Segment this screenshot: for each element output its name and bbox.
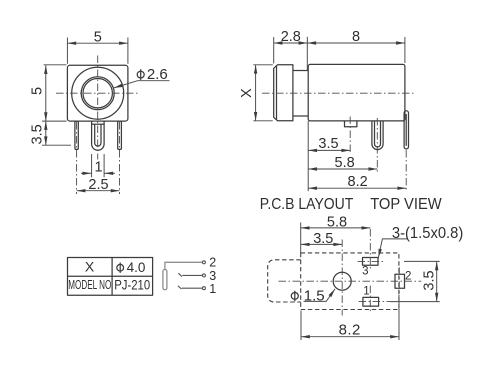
svg-text:TOP VIEW: TOP VIEW	[370, 196, 442, 213]
front view outer circle	[72, 67, 124, 119]
table row divider	[68, 275, 153, 277]
svg-text:MODEL NO: MODEL NO	[68, 278, 111, 292]
dimension 5 (top width) line	[67, 42, 128, 44]
svg-text:3.5: 3.5	[313, 231, 333, 247]
svg-text:4.0: 4.0	[127, 260, 146, 275]
svg-text:5.8: 5.8	[335, 155, 355, 171]
svg-text:5: 5	[29, 87, 45, 95]
pcb horizontal center line	[279, 280, 422, 282]
flat pin inner line	[405, 114, 407, 146]
schematic wire pin 2	[165, 262, 202, 269]
pad 1 horizontal center line	[359, 301, 390, 303]
dimension 5 (left height) line	[45, 65, 47, 121]
pad 1 vertical center line	[369, 286, 371, 313]
dimension 3.5 (side) line	[308, 149, 350, 151]
svg-text:P.C.B LAYOUT: P.C.B LAYOUT	[260, 196, 354, 213]
svg-text:2.8: 2.8	[281, 29, 301, 45]
svg-text:3.5: 3.5	[29, 124, 45, 144]
svg-text:8.2: 8.2	[348, 174, 368, 190]
svg-text:8: 8	[352, 29, 360, 45]
pad 3	[363, 258, 379, 266]
pad 2	[395, 274, 405, 288]
dimension 5.8 (side) line	[308, 168, 377, 170]
svg-text:3.5: 3.5	[318, 136, 338, 152]
svg-text:3: 3	[362, 266, 368, 278]
left pin center line	[76, 122, 78, 194]
svg-text:X: X	[239, 88, 255, 98]
pcb barrel outline (dashed)	[268, 260, 301, 302]
label phi1.5 symbol	[291, 291, 298, 302]
barrel inner flange line	[276, 66, 278, 120]
svg-text:8.2: 8.2	[339, 322, 361, 339]
schematic contact tick pin 1	[178, 286, 182, 289]
right pin center line	[119, 122, 121, 194]
side bottom dims: left extension line	[307, 121, 309, 191]
table outer rect	[68, 258, 153, 296]
schematic sleeve bar	[163, 270, 167, 290]
pcb dimension 8.2 line	[301, 336, 399, 338]
svg-text:2.6: 2.6	[147, 66, 168, 83]
pcb main outline (dashed)	[301, 253, 399, 310]
svg-text:3: 3	[209, 269, 216, 283]
front view left pin	[75, 121, 78, 149]
side view horizontal center line	[262, 92, 414, 94]
schematic terminal circle pin 1	[202, 287, 205, 290]
dimension 2.8 extension line (left)	[273, 37, 275, 64]
table cell phi4.0 symbol	[117, 263, 124, 273]
svg-text:3-(1.5x0.8): 3-(1.5x0.8)	[392, 225, 463, 242]
dimension 8 line	[307, 42, 405, 44]
side view barrel (bushing)	[274, 65, 293, 121]
front view horizontal center line	[56, 92, 140, 94]
dimension 2.8 line	[274, 42, 308, 44]
dimension 3.5 (left pin length) line	[45, 121, 47, 145]
svg-text:1: 1	[95, 159, 103, 175]
pcb hole circle phi1.5	[333, 272, 351, 290]
front view body square	[67, 65, 128, 121]
middle pin inner sleeve	[95, 124, 101, 146]
round pin inner sleeve	[375, 121, 381, 147]
svg-text:1.5: 1.5	[304, 288, 325, 305]
shared extension line between 2.8 and 8	[306, 37, 308, 71]
side view step section	[293, 70, 308, 72]
side view flat pin	[404, 111, 408, 149]
svg-text:1: 1	[363, 286, 369, 298]
svg-text:5: 5	[94, 29, 102, 45]
svg-text:1: 1	[209, 282, 216, 296]
schematic wire pin 3	[182, 274, 202, 276]
schematic terminal circle pin 2	[202, 261, 205, 264]
pad 2 vertical center line	[398, 267, 400, 293]
pcb dimension 5.8 line	[301, 227, 371, 229]
dimension 1 arrows (outside)	[81, 172, 91, 174]
side view main body	[308, 64, 405, 121]
front view ring inner (hole phi2.6)	[83, 79, 112, 108]
dimension 8 extension (right)	[404, 37, 406, 63]
pcb dimension 8.2 extension lines	[300, 311, 302, 341]
svg-text:5.8: 5.8	[327, 214, 347, 230]
pcb right dimension 3.5 extension line (top)	[404, 260, 440, 262]
front view ring outer	[81, 77, 114, 110]
svg-text:2.5: 2.5	[88, 177, 108, 193]
leader phi1.5	[304, 289, 335, 302]
dimension 2.5 (pin spacing) line	[77, 190, 120, 192]
dimension X line	[255, 65, 257, 121]
svg-text:2: 2	[209, 256, 216, 270]
pad 1	[363, 297, 379, 306]
leader phi2.6	[114, 81, 170, 88]
pad 3 horizontal center line	[358, 260, 384, 262]
svg-text:3.5: 3.5	[422, 270, 438, 290]
front view vertical center line	[97, 56, 99, 160]
svg-text:X: X	[85, 258, 95, 274]
front view middle pin outer	[92, 121, 105, 150]
pcb dimension 5.8 extension line	[300, 223, 302, 253]
table column divider	[111, 258, 113, 296]
pad 3 vertical center line	[369, 229, 371, 270]
dimension X extension lines	[253, 64, 272, 66]
pcb dimension 3.5 line	[301, 243, 343, 245]
svg-text:2: 2	[405, 271, 411, 283]
dimension 1 (middle pin) extension lines	[91, 154, 93, 177]
schematic terminal circle pin 3	[202, 274, 205, 277]
schematic wire pin 1	[182, 287, 202, 289]
label phi2.6 symbol	[137, 69, 144, 80]
pcb right dimension 3.5 line	[436, 261, 438, 301]
dimension 5 (left height) extension lines	[44, 64, 67, 66]
leader 3-(1.5x0.8)	[378, 239, 407, 258]
pad 1 extension line (right 3.5 dim)	[390, 301, 440, 303]
side view round pin outer	[372, 121, 383, 150]
pcb circle vertical center line	[341, 240, 343, 316]
flat pin center line below	[405, 150, 407, 192]
dimension 5 (top width) extension lines	[66, 38, 68, 64]
svg-text:PJ-210: PJ-210	[114, 277, 150, 293]
schematic contact tick pin 3	[178, 273, 182, 276]
front view right pin	[118, 121, 122, 149]
dimension 3.5 extension line	[42, 144, 71, 146]
middle pin shoulder line	[92, 123, 105, 125]
round pin center line	[376, 118, 378, 173]
dimension 8.2 (side) line	[308, 187, 406, 189]
stub pin center line	[349, 117, 351, 155]
side view stub pin	[345, 121, 357, 127]
